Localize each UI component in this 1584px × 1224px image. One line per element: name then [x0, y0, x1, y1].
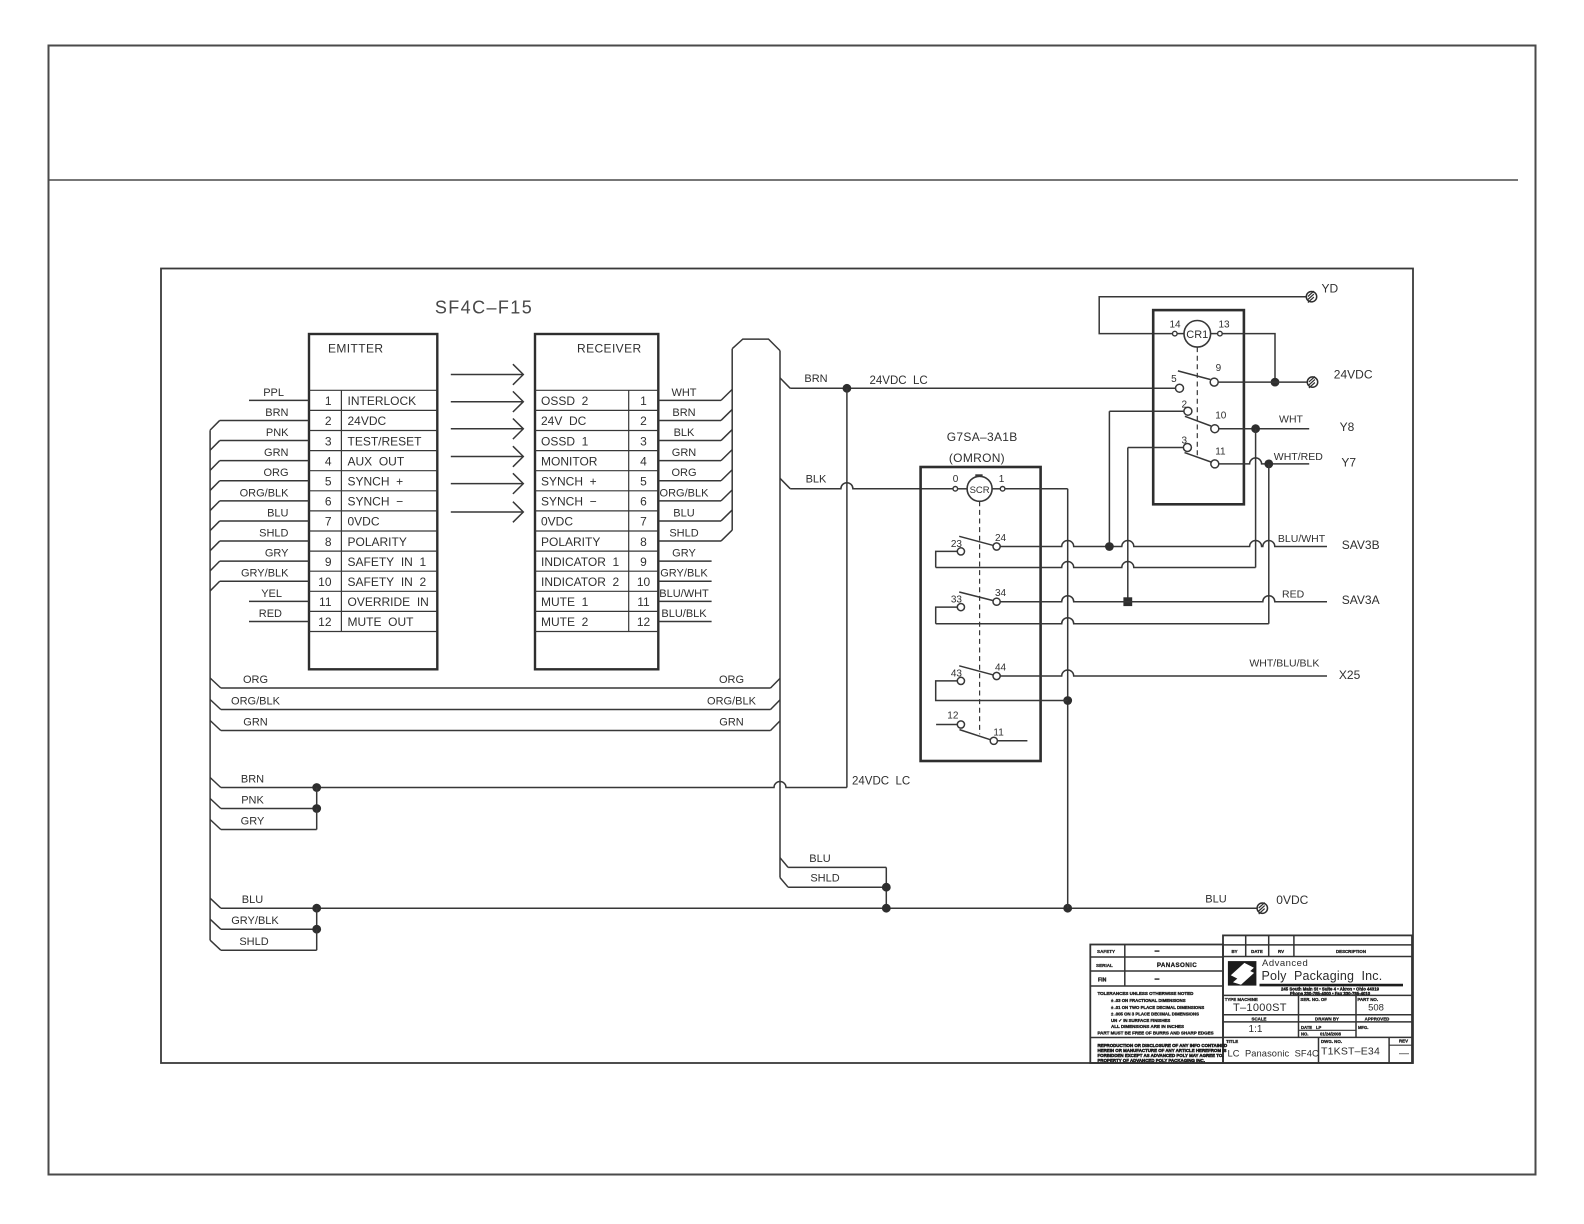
svg-text:4: 4	[325, 454, 332, 468]
optical beam arrow 2 emitter to receiver	[451, 401, 523, 403]
wire PNK left bundle tied to BRN	[210, 799, 221, 809]
svg-text:MONITOR: MONITOR	[541, 454, 598, 468]
left cable bundle bus	[209, 430, 211, 940]
wire riser Y7 down to contact 33 return	[1268, 464, 1270, 624]
pin 12 G7SA	[957, 721, 964, 728]
svg-text:ORG: ORG	[263, 467, 288, 479]
title strip divider line	[49, 179, 1519, 181]
svg-text:GRN: GRN	[243, 717, 268, 729]
svg-text:01/24/2008: 01/24/2008	[1320, 1032, 1342, 1037]
svg-text:T–1000ST: T–1000ST	[1233, 1002, 1287, 1014]
pin 14 CR1 coil	[1173, 331, 1178, 336]
svg-text:7: 7	[640, 515, 647, 529]
svg-text:Y8: Y8	[1340, 420, 1355, 434]
svg-text:Advanced: Advanced	[1262, 958, 1308, 969]
logo underline	[1260, 984, 1404, 987]
svg-text:GRY/BLK: GRY/BLK	[660, 568, 708, 580]
wire GRY/BLK emitter pin 10 to left bundle	[220, 580, 309, 582]
svg-text:SAV3B: SAV3B	[1342, 538, 1380, 552]
title block - right company panel	[1223, 935, 1412, 1063]
svg-text:WHT/RED: WHT/RED	[1274, 451, 1323, 463]
svg-text:OSSD 1: OSSD 1	[541, 434, 589, 448]
svg-text:ORG: ORG	[671, 467, 696, 479]
pin 33 G7SA	[957, 604, 964, 611]
wire contact 24 BLU/WHT to SAV3B	[1000, 541, 1327, 547]
wire PNK emitter pin 3 to left bundle	[220, 440, 309, 442]
relay G7SA enclosure box	[921, 467, 1041, 761]
svg-text:DWG. NO.: DWG. NO.	[1321, 1039, 1342, 1044]
svg-text:INDICATOR 2: INDICATOR 2	[541, 575, 620, 589]
svg-text:2: 2	[325, 414, 332, 428]
svg-text:11: 11	[1215, 446, 1226, 457]
wire ORG/BLK left bundle to receiver bundle	[210, 700, 221, 710]
contact blade 2-10	[1185, 416, 1211, 426]
svg-text:ORG/BLK: ORG/BLK	[231, 696, 281, 708]
svg-text:MFG.: MFG.	[1358, 1025, 1368, 1030]
svg-text:GRY/BLK: GRY/BLK	[231, 915, 279, 927]
wire BLU receiver pin 7 to right bundle	[658, 520, 721, 522]
svg-text:11: 11	[319, 595, 332, 609]
optical beam arrow 3 emitter to receiver	[451, 428, 523, 430]
SCR relay coil	[967, 476, 992, 501]
wire BLU/BLK receiver pin 12 stub	[658, 620, 711, 622]
svg-text:RED: RED	[259, 608, 282, 620]
svg-text:BRN: BRN	[241, 774, 264, 786]
svg-text:24: 24	[995, 533, 1007, 544]
svg-text:G7SA–3A1B: G7SA–3A1B	[947, 430, 1018, 444]
svg-text:T1KST–E34: T1KST–E34	[1321, 1046, 1380, 1058]
svg-text:10: 10	[1215, 411, 1227, 422]
wire PPL emitter pin 1 stub	[249, 399, 309, 401]
wire stub pin 11	[997, 740, 1027, 742]
wire SHLD emitter pin 8 to left bundle	[220, 540, 309, 542]
coil polarity mark	[975, 474, 982, 476]
wire ORG left bundle to receiver bundle	[210, 678, 221, 688]
node junction pin3 / SAV3A (square)	[1123, 597, 1132, 606]
wire CR1 pin 2 to SAV3B wire	[1109, 410, 1184, 412]
wire GRN left bundle to receiver bundle	[210, 721, 221, 731]
svg-text:SCALE: SCALE	[1252, 1017, 1267, 1022]
wire BLK bundle exit chamfer	[780, 478, 790, 488]
svg-text:BLU: BLU	[673, 507, 694, 519]
wire BLK to SCR coil pin 0	[790, 483, 953, 489]
pin 2 CR1	[1184, 407, 1192, 415]
svg-text:SYNCH +: SYNCH +	[348, 475, 404, 489]
svg-text:PROPERTY OF ADVANCED POLY PACK: PROPERTY OF ADVANCED POLY PACKAGING INC.	[1098, 1058, 1205, 1063]
contact blade 5-9	[1178, 371, 1210, 380]
svg-text:44: 44	[995, 663, 1007, 674]
svg-text:43: 43	[951, 668, 963, 679]
wire ORG receiver pin 5 to right bundle	[658, 480, 721, 482]
node junction BRN/PNK	[312, 783, 321, 792]
wire SHLD bundle exit chamfer	[780, 878, 788, 888]
svg-text:BLU: BLU	[242, 894, 263, 906]
svg-text:8: 8	[640, 535, 647, 549]
wire CR1 pin 3 to SAV3A wire	[1128, 447, 1184, 449]
pin 5 CR1	[1176, 384, 1184, 392]
svg-text:RECEIVER: RECEIVER	[577, 342, 642, 356]
node junction 0VDC / SCR return riser	[1063, 904, 1072, 913]
svg-text:LP: LP	[1316, 1025, 1322, 1030]
svg-text:9: 9	[1216, 363, 1222, 374]
svg-text:PNK: PNK	[266, 427, 289, 439]
wire ORG/BLK emitter pin 6 to left bundle	[220, 500, 309, 502]
svg-text:OVERRIDE IN: OVERRIDE IN	[348, 595, 429, 609]
pin 23 G7SA	[957, 548, 964, 555]
light-curtain RECEIVER block outline	[535, 334, 658, 669]
wire ORG/BLK receiver pin 6 to right bundle	[658, 500, 721, 502]
svg-text:SHLD: SHLD	[810, 873, 839, 885]
svg-text:5: 5	[1171, 374, 1177, 385]
receiver cable bundle left edge	[731, 349, 733, 531]
wire BRN emitter pin 2 to left bundle	[220, 419, 309, 421]
node junction pin13 / 24VDC	[1271, 378, 1280, 387]
svg-text:SF4C–F15: SF4C–F15	[435, 298, 533, 318]
wire BLU emitter pin 7 to left bundle	[220, 520, 309, 522]
svg-text:ORG/BLK: ORG/BLK	[240, 487, 290, 499]
svg-text:1: 1	[999, 474, 1005, 485]
wire riser SHLD to GRY/BLK	[316, 929, 318, 950]
svg-text:BLU: BLU	[809, 853, 830, 865]
wire BRN receiver pin 2 to right bundle	[658, 419, 721, 421]
svg-text:2: 2	[1181, 399, 1187, 410]
svg-text:GRY: GRY	[265, 548, 289, 560]
pin 3 CR1	[1183, 444, 1191, 452]
node junction GRY-BLK/SHLD	[312, 925, 321, 934]
SCR mechanical link (dashed)	[979, 501, 981, 734]
wire YEL emitter pin 11 stub	[249, 600, 309, 602]
optical beam arrow 1 emitter to receiver	[451, 374, 523, 376]
svg-text:MUTE 2: MUTE 2	[541, 615, 589, 629]
svg-text:MUTE OUT: MUTE OUT	[348, 615, 415, 629]
svg-text:BLU/BLK: BLU/BLK	[661, 608, 707, 620]
contact blade 12-11	[960, 730, 991, 740]
wire BRN 24VDC LC to relay CR1 pin 5	[790, 387, 1175, 389]
contact blade 43-44	[959, 666, 993, 675]
svg-text:12: 12	[637, 615, 651, 629]
svg-text:Y7: Y7	[1341, 455, 1356, 469]
svg-text:14: 14	[1169, 320, 1181, 331]
wire contact 44 WHT/BLU/BLK to X25	[1000, 670, 1327, 676]
pin 1 SCR coil	[1000, 487, 1005, 492]
svg-text:10: 10	[637, 575, 651, 589]
svg-text:REV: REV	[1399, 1039, 1408, 1044]
svg-text:1:1: 1:1	[1249, 1024, 1263, 1035]
svg-text:POLARITY: POLARITY	[541, 535, 600, 549]
svg-text:PNK: PNK	[241, 795, 264, 807]
wire GRY emitter pin 9 to left bundle	[220, 560, 309, 562]
schematic enclosure frame	[161, 269, 1413, 1064]
wire contact 33 return loop to Y7 riser	[936, 607, 958, 624]
svg-text:3: 3	[325, 434, 332, 448]
svg-text:BRN: BRN	[804, 373, 827, 385]
svg-text:PPL: PPL	[263, 387, 284, 399]
wire riser 24VDC LC down to lower BRN wire	[846, 388, 848, 787]
wire riser SCR return to 0VDC	[1067, 489, 1069, 908]
svg-text:SAFETY: SAFETY	[1097, 949, 1115, 954]
svg-text:0VDC: 0VDC	[541, 515, 573, 529]
svg-text:INDICATOR 1: INDICATOR 1	[541, 555, 620, 569]
svg-text:11: 11	[993, 728, 1004, 739]
wire riser pin 2 down to SAV3B	[1108, 411, 1110, 546]
svg-text:9: 9	[640, 555, 647, 569]
svg-text:BLU: BLU	[1205, 894, 1226, 906]
svg-text:5: 5	[325, 475, 332, 489]
wire CR1 pin 13 to 24VDC node	[1222, 334, 1275, 383]
svg-text:SHLD: SHLD	[669, 527, 698, 539]
CR1 mechanical link (dashed)	[1196, 347, 1198, 457]
svg-text:6: 6	[325, 495, 332, 509]
pin 13 CR1 coil	[1218, 331, 1223, 336]
svg-text:APPROVED: APPROVED	[1365, 1017, 1390, 1022]
svg-text:DRAWN BY: DRAWN BY	[1315, 1017, 1339, 1022]
svg-text:SER. NO. OF: SER. NO. OF	[1300, 997, 1327, 1002]
pin 10 CR1	[1211, 425, 1219, 433]
wire coil to pin1	[992, 488, 1000, 490]
wire riser Y8 down to contact 23 return	[1255, 429, 1257, 568]
svg-text:Poly Packaging Inc.: Poly Packaging Inc.	[1262, 969, 1383, 983]
wire SHLD to riser	[788, 886, 886, 888]
svg-text:ORG/BLK: ORG/BLK	[660, 487, 710, 499]
wire coil to pin13	[1211, 333, 1218, 335]
svg-text:3: 3	[640, 434, 647, 448]
svg-text:BLK: BLK	[674, 427, 695, 439]
svg-text:33: 33	[951, 595, 963, 606]
wire CR1 pin 11 WHT/RED to Y7	[1219, 458, 1309, 464]
svg-text:(OMRON): (OMRON)	[949, 451, 1005, 465]
wire CR1 pin 9 to terminal 24VDC	[1218, 381, 1307, 383]
svg-text:34: 34	[995, 588, 1007, 599]
contact blade 23-24	[959, 536, 993, 545]
svg-text:SYNCH −: SYNCH −	[541, 495, 597, 509]
svg-text:UN ✓ IN SURFACE FINISHES: UN ✓ IN SURFACE FINISHES	[1111, 1018, 1170, 1023]
svg-text:GRY: GRY	[672, 548, 696, 560]
svg-text:ORG: ORG	[719, 674, 744, 686]
svg-text:BY: BY	[1231, 949, 1237, 954]
receiver cable bundle right edge	[779, 351, 781, 878]
pin 9 CR1	[1210, 378, 1218, 386]
wire riser GRY to PNK	[316, 809, 318, 830]
wire CR1 pin 10 WHT to Y8	[1219, 428, 1309, 430]
svg-text:–: –	[1154, 946, 1159, 956]
svg-text:24VDC LC: 24VDC LC	[870, 375, 928, 387]
svg-text:X25: X25	[1339, 668, 1361, 682]
Advanced Poly Packaging logo	[1228, 961, 1257, 986]
svg-text:PANASONIC: PANASONIC	[1157, 962, 1197, 969]
svg-text:3: 3	[1181, 435, 1187, 446]
node junction Y8	[1251, 424, 1260, 433]
node junction contact 43 return / riser	[1063, 696, 1072, 705]
pin 11 G7SA	[990, 737, 997, 744]
wire riser BLU/SHLD to 0VDC wire	[885, 867, 887, 908]
wire WHT receiver pin 1 to right bundle	[658, 399, 721, 401]
optical beam arrow 4 emitter to receiver	[451, 456, 523, 458]
wire BLU bundle exit chamfer	[780, 858, 788, 868]
wire contact 34 RED to SAV3A	[1000, 596, 1327, 602]
svg-text:BLU/WHT: BLU/WHT	[1278, 533, 1326, 545]
svg-text:1: 1	[640, 394, 647, 408]
svg-text:BLU/WHT: BLU/WHT	[659, 588, 709, 600]
wire SHLD receiver pin 8 to right bundle	[658, 540, 721, 542]
light-curtain EMITTER block outline	[309, 334, 437, 669]
wire BLU 0VDC main run	[210, 898, 221, 908]
svg-text:0VDC: 0VDC	[348, 515, 380, 529]
svg-text:± .01 ON TWO PLACE DECIMAL DIM: ± .01 ON TWO PLACE DECIMAL DIMENSIONS	[1111, 1005, 1204, 1010]
svg-text:508: 508	[1368, 1002, 1384, 1013]
svg-text:SAFETY IN 1: SAFETY IN 1	[348, 555, 427, 569]
svg-text:—: —	[1399, 1049, 1409, 1060]
pin 43 G7SA	[957, 677, 964, 684]
svg-text:0: 0	[953, 474, 959, 485]
wire contact 23 return loop to Y8 riser	[936, 551, 958, 567]
svg-text:EMITTER: EMITTER	[328, 342, 383, 356]
pin 11 CR1	[1211, 460, 1219, 468]
svg-text:24VDC: 24VDC	[1334, 367, 1373, 381]
wire ORG emitter pin 5 to left bundle	[220, 480, 309, 482]
svg-text:DATE: DATE	[1251, 949, 1263, 954]
svg-text:12: 12	[947, 711, 959, 722]
svg-text:ALL DIMENSIONS ARE IN INCHES: ALL DIMENSIONS ARE IN INCHES	[1111, 1024, 1184, 1029]
wire BRN left bundle to 24VDC LC riser	[210, 778, 221, 788]
svg-text:SYNCH +: SYNCH +	[541, 475, 597, 489]
svg-text:RED: RED	[1282, 588, 1305, 600]
svg-text:GRY/BLK: GRY/BLK	[241, 568, 289, 580]
wire GRN receiver pin 4 to right bundle	[658, 460, 721, 462]
wire GRY receiver pin 9 stub	[658, 560, 711, 562]
wire SCR pin 1 to 0VDC riser	[1005, 488, 1068, 490]
svg-text:ORG: ORG	[243, 674, 268, 686]
pin 34 G7SA	[993, 598, 1000, 605]
svg-text:24V DC: 24V DC	[541, 414, 587, 428]
svg-text:TITLE: TITLE	[1226, 1039, 1238, 1044]
svg-text:BLK: BLK	[806, 474, 827, 486]
title block - left data panel	[1090, 945, 1223, 1064]
svg-text:8: 8	[325, 535, 332, 549]
svg-text:OSSD 2: OSSD 2	[541, 394, 589, 408]
optical beam arrow 5 emitter to receiver	[451, 483, 523, 485]
svg-text:GRN: GRN	[264, 447, 289, 459]
svg-text:SERIAL: SERIAL	[1096, 963, 1113, 968]
wire riser GRY/BLK to BLU	[316, 908, 318, 929]
svg-text:24VDC: 24VDC	[348, 414, 387, 428]
svg-text:TEST/RESET: TEST/RESET	[348, 434, 423, 448]
svg-text:CR1: CR1	[1186, 329, 1208, 341]
svg-text:SYNCH −: SYNCH −	[348, 495, 404, 509]
svg-text:BRN: BRN	[265, 407, 288, 419]
svg-text:BLU: BLU	[267, 507, 288, 519]
EMITTER table grid	[309, 389, 437, 391]
svg-text:24VDC LC: 24VDC LC	[852, 775, 910, 787]
svg-text:GRN: GRN	[672, 447, 697, 459]
wire stub pin 12	[936, 724, 957, 726]
svg-text:13: 13	[1218, 320, 1230, 331]
terminal 24VDC	[1307, 377, 1317, 387]
node junction BRN / 24VDC LC riser	[843, 384, 852, 393]
svg-text:6: 6	[640, 495, 647, 509]
svg-text:DATE: DATE	[1301, 1025, 1312, 1030]
receiver cable bundle top cap	[732, 339, 780, 351]
node junction Y7	[1264, 460, 1273, 469]
svg-text:10: 10	[318, 575, 332, 589]
wire GRN emitter pin 4 to left bundle	[220, 460, 309, 462]
wire GRY/BLK left bundle tied to BLU	[210, 919, 221, 929]
svg-text:FIN: FIN	[1098, 977, 1107, 983]
wire SHLD left bundle tied to GRY/BLK	[210, 940, 221, 950]
svg-text:0VDC: 0VDC	[1276, 893, 1308, 907]
svg-text:YEL: YEL	[261, 588, 282, 600]
pin 24 G7SA	[993, 543, 1000, 550]
wire pin14 to coil	[1177, 333, 1184, 335]
svg-text:AUX OUT: AUX OUT	[348, 454, 405, 468]
wire pin0 to coil	[958, 488, 968, 490]
contact blade 33-34	[959, 592, 993, 601]
wire BLU bundle to 0VDC riser	[788, 866, 886, 868]
svg-text:1: 1	[325, 394, 332, 408]
svg-text:SHLD: SHLD	[239, 936, 268, 948]
svg-text:RV: RV	[1278, 949, 1284, 954]
svg-text:SAV3A: SAV3A	[1342, 593, 1380, 607]
wire contact 43 return loop to 0VDC riser	[936, 681, 1068, 701]
svg-text:5: 5	[640, 475, 647, 489]
RECEIVER table grid	[535, 389, 658, 391]
svg-text:WHT: WHT	[671, 387, 696, 399]
wire RED emitter pin 12 stub	[249, 620, 309, 622]
svg-text:INTERLOCK: INTERLOCK	[348, 394, 417, 408]
svg-text:11: 11	[637, 595, 650, 609]
svg-text:WHT: WHT	[1279, 414, 1303, 426]
svg-text:POLARITY: POLARITY	[348, 535, 407, 549]
svg-text:PART MUST BE FREE OF BURRS AND: PART MUST BE FREE OF BURRS AND SHARP EDG…	[1098, 1030, 1214, 1035]
wire GRY/BLK receiver pin 10 stub	[658, 580, 711, 582]
node junction SHLD / riser	[882, 883, 891, 892]
svg-text:MUTE 1: MUTE 1	[541, 595, 589, 609]
svg-text:SHLD: SHLD	[259, 527, 288, 539]
pin 0 SCR coil	[953, 487, 958, 492]
wire riser pin 3 down to SAV3A	[1127, 448, 1129, 602]
svg-text:GRY: GRY	[241, 816, 265, 828]
svg-text:NO.: NO.	[1301, 1032, 1308, 1037]
relay CR1 enclosure box	[1153, 310, 1244, 504]
contact blade 3-11	[1185, 453, 1212, 462]
svg-text:YD: YD	[1322, 281, 1339, 295]
svg-text:SAFETY IN 2: SAFETY IN 2	[348, 575, 427, 589]
svg-text:GRN: GRN	[719, 717, 744, 729]
node junction pin2 / SAV3B	[1105, 542, 1114, 551]
svg-text:9: 9	[325, 555, 332, 569]
svg-text:12: 12	[318, 615, 332, 629]
svg-text:ORG/BLK: ORG/BLK	[707, 696, 757, 708]
wire BRN bundle exit chamfer	[780, 378, 790, 388]
node junction BLU/GRY-BLK	[312, 904, 321, 913]
node junction 0VDC / shield riser	[882, 904, 891, 913]
svg-text:WHT/BLU/BLK: WHT/BLU/BLK	[1249, 657, 1319, 669]
relay CR1 coil	[1184, 321, 1211, 348]
optical beam arrow 6 emitter to receiver	[451, 511, 523, 513]
terminal YD	[1306, 292, 1316, 302]
svg-text:SCR: SCR	[970, 485, 990, 496]
svg-text:± .005 ON 3 PLACE DECIMAL DIME: ± .005 ON 3 PLACE DECIMAL DIMENSIONS	[1111, 1011, 1199, 1016]
svg-text:7: 7	[325, 515, 332, 529]
wire BLU/WHT receiver pin 11 stub	[658, 600, 711, 602]
wire GRY left bundle tied to PNK	[210, 820, 221, 830]
wire riser PNK to BRN	[316, 788, 318, 809]
svg-text:LC Panasonic SF4C: LC Panasonic SF4C	[1228, 1048, 1319, 1058]
svg-text:BRN: BRN	[672, 407, 695, 419]
svg-text:± .03 ON FRACTIONAL DIMENSIONS: ± .03 ON FRACTIONAL DIMENSIONS	[1111, 998, 1186, 1003]
svg-text:DESCRIPTION: DESCRIPTION	[1336, 949, 1366, 954]
pin 44 G7SA	[993, 672, 1000, 679]
svg-text:–: –	[1154, 974, 1159, 984]
